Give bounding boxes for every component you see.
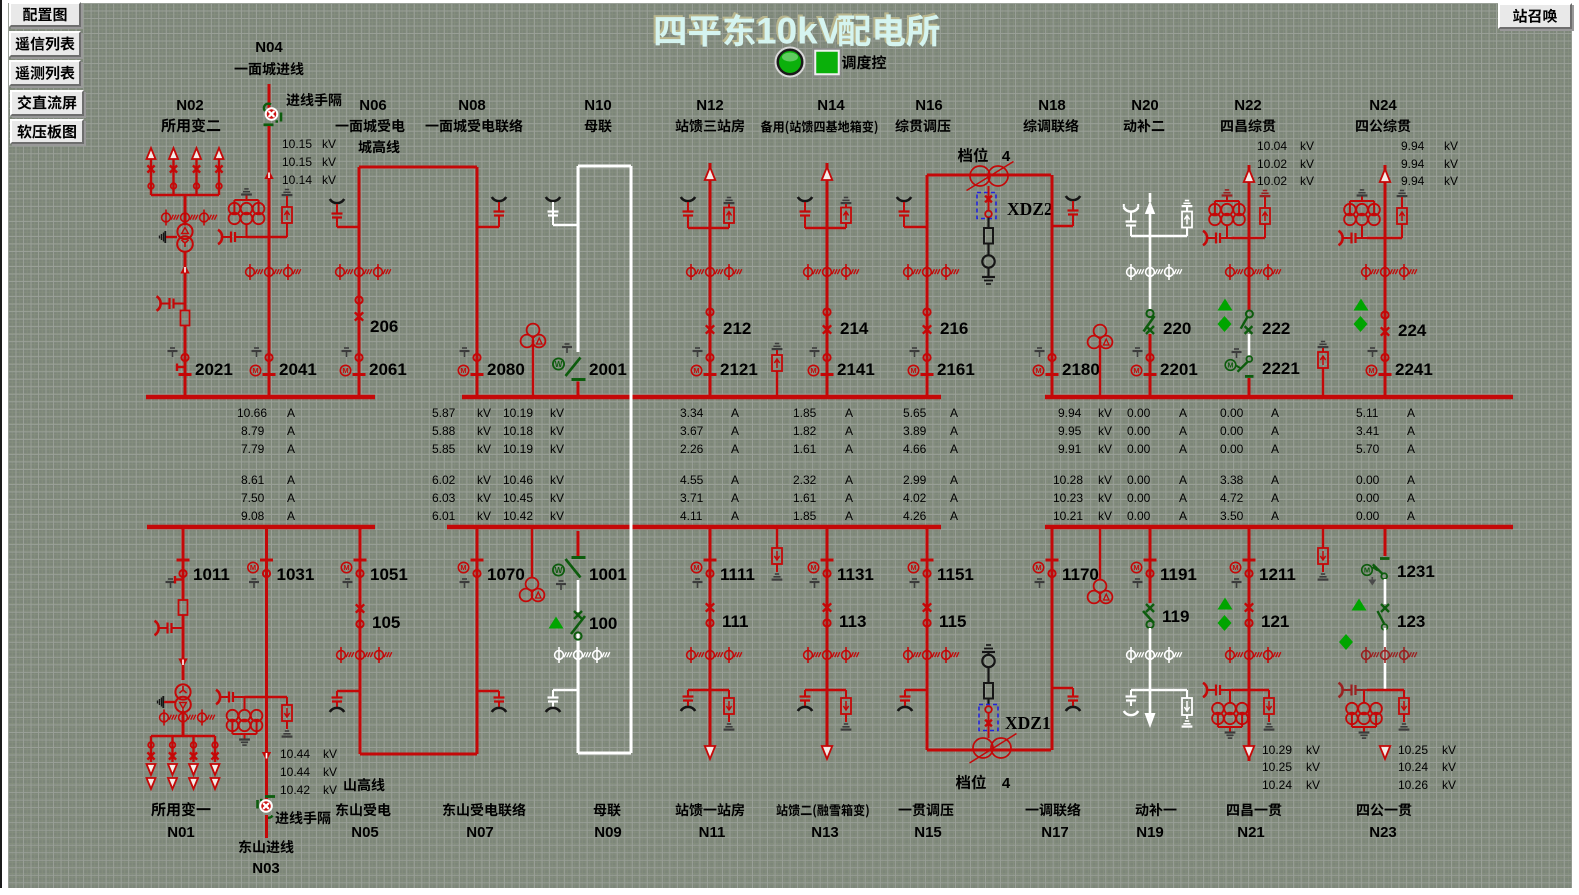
N19 arrester box <box>1182 690 1193 727</box>
svg-text:7.50: 7.50 <box>241 491 265 505</box>
arrester stub (bus II-III right) <box>1318 342 1329 398</box>
button 交直流屏 <box>10 90 84 116</box>
svg-text:N14: N14 <box>817 97 845 114</box>
label 四公一贯 <box>1357 803 1411 816</box>
N18 cable termination <box>1052 196 1080 226</box>
svg-text:9.91: 9.91 <box>1058 442 1082 456</box>
svg-text:10.14: 10.14 <box>282 173 312 187</box>
svg-text:kV: kV <box>1442 743 1456 757</box>
N20 CT row <box>1127 264 1182 280</box>
label N13 <box>811 824 839 841</box>
svg-text:10kV: 10kV <box>756 11 843 52</box>
svg-text:2241: 2241 <box>1395 360 1433 379</box>
svg-text:kV: kV <box>1098 491 1112 505</box>
N15 stem <box>926 527 929 750</box>
svg-text:A: A <box>1179 424 1187 438</box>
svg-text:10.02: 10.02 <box>1257 157 1287 171</box>
svg-text:3.50: 3.50 <box>1220 509 1244 523</box>
svg-text:2.99: 2.99 <box>903 473 927 487</box>
label 动补二 <box>1124 119 1165 132</box>
N24 status triangle <box>1354 299 1369 311</box>
N21 CT row <box>1226 647 1281 663</box>
svg-text:9.94: 9.94 <box>1401 174 1425 188</box>
svg-text:0.00: 0.00 <box>1127 509 1151 523</box>
svg-text:A: A <box>845 406 853 420</box>
svg-text:N11: N11 <box>699 824 726 841</box>
N16 cable termination <box>897 197 927 227</box>
svg-text:5.88: 5.88 <box>432 424 456 438</box>
svg-text:10.26: 10.26 <box>1398 778 1428 792</box>
label 一面城受电 <box>336 119 405 132</box>
svg-text:kV: kV <box>477 473 491 487</box>
N13 cable termination <box>798 690 827 711</box>
svg-text:9.08: 9.08 <box>241 509 265 523</box>
svg-text:10.44: 10.44 <box>280 747 310 761</box>
arrester stub (bottom bus II-III) <box>1318 529 1329 580</box>
XDZ2 tap changer <box>977 186 1053 284</box>
bus tie loop top <box>578 165 631 168</box>
label 四昌综贯 <box>1221 119 1275 132</box>
svg-text:216: 216 <box>940 319 968 338</box>
svg-text:4: 4 <box>1002 148 1011 165</box>
svg-text:kV: kV <box>1098 473 1112 487</box>
N02 prong 1 <box>147 148 156 195</box>
breaker 2221 (open) <box>1225 349 1300 397</box>
svg-text:9.94: 9.94 <box>1401 139 1425 153</box>
svg-text:2141: 2141 <box>837 360 875 379</box>
label N10 <box>584 97 612 114</box>
label 一面城进线 <box>235 62 304 75</box>
bus tie loop right <box>630 166 633 753</box>
N01 stem mid <box>182 615 185 680</box>
N01 prong 2 <box>168 736 177 789</box>
svg-text:0.00: 0.00 <box>1356 509 1380 523</box>
label 调度控 <box>842 55 886 69</box>
N22 white link <box>1248 334 1251 356</box>
label 四昌一贯 <box>1227 804 1281 817</box>
svg-text:A: A <box>1179 442 1187 456</box>
svg-text:10.24: 10.24 <box>1262 778 1292 792</box>
svg-text:kV: kV <box>322 173 336 187</box>
breaker 2241 <box>1366 348 1433 379</box>
svg-text:N17: N17 <box>1041 824 1069 841</box>
svg-text:1170: 1170 <box>1062 565 1099 584</box>
svg-text:0.00: 0.00 <box>1127 442 1151 456</box>
svg-text:A: A <box>950 442 958 456</box>
svg-text:M: M <box>343 563 349 572</box>
N22 status diamond <box>1218 316 1232 332</box>
svg-text:N05: N05 <box>351 824 379 841</box>
svg-text:N24: N24 <box>1369 97 1397 114</box>
svg-text:N21: N21 <box>1237 824 1265 841</box>
svg-text:1.85: 1.85 <box>793 406 817 420</box>
svg-text:N10: N10 <box>584 97 612 114</box>
svg-text:A: A <box>1407 442 1415 456</box>
svg-text:1051: 1051 <box>370 565 408 584</box>
svg-text:10.18: 10.18 <box>503 424 533 438</box>
svg-text:5.65: 5.65 <box>903 406 927 420</box>
svg-text:kV: kV <box>1300 174 1314 188</box>
N23 white link upper <box>1384 579 1387 604</box>
label 东山受电 <box>336 803 391 816</box>
station title 四平东10kV配电所 <box>654 9 940 52</box>
svg-text:kV: kV <box>477 491 491 505</box>
svg-text:A: A <box>1271 509 1279 523</box>
svg-text:2161: 2161 <box>937 360 975 379</box>
svg-text:M: M <box>1232 563 1238 572</box>
label N08 <box>458 97 486 114</box>
N15 cable termination <box>898 690 927 711</box>
grounding transformer (N21) <box>1212 690 1248 738</box>
N04 voltage rows <box>282 137 336 187</box>
N13 flow arrow <box>822 746 833 759</box>
N15 CT row <box>904 647 959 663</box>
grounding transformer (N03) <box>227 697 263 745</box>
bus tie termination lower <box>546 690 578 712</box>
svg-text:kV: kV <box>550 406 564 420</box>
N21 flow arrow <box>1244 746 1255 759</box>
svg-text:N19: N19 <box>1136 824 1164 841</box>
svg-text:3.67: 3.67 <box>680 424 704 438</box>
svg-text:N03: N03 <box>252 860 280 877</box>
svg-text:10.15: 10.15 <box>282 137 312 151</box>
svg-text:A: A <box>1271 424 1279 438</box>
svg-text:9.94: 9.94 <box>1058 406 1082 420</box>
svg-text:M: M <box>460 563 466 572</box>
breaker 1170 <box>1033 560 1099 588</box>
fuse F2 (N01) <box>179 600 188 615</box>
svg-text:kV: kV <box>1300 157 1314 171</box>
regulating transformer (bottom) <box>970 734 1017 764</box>
bus tie white link 100-1001 <box>577 580 580 612</box>
N13 stem <box>826 527 829 757</box>
regulator link top <box>927 174 1051 177</box>
svg-text:M: M <box>460 366 466 375</box>
N23 CT row <box>1362 647 1417 663</box>
svg-text:10.42: 10.42 <box>503 509 533 523</box>
svg-text:1.61: 1.61 <box>793 491 817 505</box>
svg-text:3.38: 3.38 <box>1220 473 1244 487</box>
svg-text:N12: N12 <box>696 97 724 114</box>
N24 status diamond <box>1354 316 1368 332</box>
svg-text:2180: 2180 <box>1062 360 1100 379</box>
N02 flow arrow <box>180 265 189 274</box>
svg-text:N22: N22 <box>1234 97 1262 114</box>
N02 prong 3 <box>192 148 201 195</box>
svg-text:1.85: 1.85 <box>793 509 817 523</box>
N01 transformer neutral earth <box>158 696 176 708</box>
svg-text:A: A <box>950 509 958 523</box>
bus tie loop bottom <box>578 752 631 755</box>
svg-text:A: A <box>950 424 958 438</box>
N01 prong 4 <box>211 736 220 789</box>
svg-text:220: 220 <box>1163 319 1191 338</box>
svg-text:kV: kV <box>1444 157 1458 171</box>
svg-text:W: W <box>555 360 563 369</box>
svg-text:kV: kV <box>477 442 491 456</box>
label N21 <box>1237 824 1265 841</box>
label 档位 4 (top) <box>958 148 1011 165</box>
measurements N16 currents <box>903 406 958 523</box>
svg-text:A: A <box>1407 424 1415 438</box>
grounding transformer (N22) <box>1209 190 1245 238</box>
N03 line main <box>265 527 268 799</box>
svg-text:A: A <box>1271 442 1279 456</box>
svg-text:kV: kV <box>1098 509 1112 523</box>
label 一贯调压 <box>899 803 954 816</box>
measurements N24 currents <box>1356 406 1415 523</box>
svg-text:XDZ1: XDZ1 <box>1005 713 1051 733</box>
svg-text:kV: kV <box>477 406 491 420</box>
N03 flow arrow <box>262 752 271 761</box>
svg-text:M: M <box>693 563 699 572</box>
svg-text:kV: kV <box>1098 424 1112 438</box>
label 动补一 <box>1136 803 1177 816</box>
svg-text:A: A <box>731 424 739 438</box>
disconnect 222 (open) <box>1241 311 1291 339</box>
svg-text:121: 121 <box>1261 612 1289 631</box>
svg-text:M: M <box>250 563 256 572</box>
svg-text:0.00: 0.00 <box>1220 442 1244 456</box>
disconnect 111 <box>706 603 749 631</box>
N11 stem <box>709 527 712 757</box>
svg-text:8.79: 8.79 <box>241 424 265 438</box>
svg-text:A: A <box>287 473 295 487</box>
svg-text:1.61: 1.61 <box>793 442 817 456</box>
N01 CT row <box>160 710 215 726</box>
N14 arrester box <box>827 198 851 229</box>
svg-text:A: A <box>845 442 853 456</box>
N03 voltage rows <box>280 747 337 797</box>
label 山高线 <box>344 778 384 791</box>
N22 CT row <box>1226 264 1281 280</box>
svg-text:7.79: 7.79 <box>241 442 265 456</box>
top bus section II <box>462 395 941 400</box>
svg-text:0.00: 0.00 <box>1220 424 1244 438</box>
svg-text:10.45: 10.45 <box>503 491 533 505</box>
label 母联 <box>585 119 612 132</box>
svg-text:212: 212 <box>723 319 751 338</box>
N07 cable termination <box>477 691 506 712</box>
breaker 1031 <box>248 560 315 588</box>
measurements N12 currents <box>680 406 739 523</box>
label N14 <box>817 97 845 114</box>
svg-text:kV: kV <box>550 442 564 456</box>
N02 stem mid <box>184 252 187 310</box>
N08 cable termination <box>477 197 506 227</box>
N07 stem <box>476 527 479 754</box>
label N23 <box>1369 824 1397 841</box>
svg-text:kV: kV <box>1098 442 1112 456</box>
svg-text:kV: kV <box>322 137 336 151</box>
disconnect 206 <box>355 296 399 336</box>
button 遥测列表 <box>9 60 81 86</box>
N22 voltage rows <box>1257 139 1314 188</box>
N17 cable termination <box>1052 688 1080 711</box>
mountain line loop bottom <box>360 753 477 756</box>
arrester box (N03) <box>267 697 293 737</box>
svg-text:6.03: 6.03 <box>432 491 456 505</box>
svg-text:1151: 1151 <box>937 565 974 584</box>
N23 status diamond <box>1339 634 1353 650</box>
arrester stub (bottom bus I-II) <box>772 529 783 580</box>
N05 CT row <box>337 647 392 663</box>
svg-text:3.41: 3.41 <box>1356 424 1380 438</box>
svg-text:A: A <box>1271 406 1279 420</box>
label 站馈三站房 <box>676 119 745 132</box>
LED indicator <box>776 48 805 77</box>
N05 cable termination <box>330 691 360 712</box>
N21 status diamond <box>1218 615 1232 631</box>
disconnect 119 (open) <box>1143 604 1189 628</box>
N19 branch <box>1131 689 1187 691</box>
svg-text:M: M <box>910 366 916 375</box>
bottom bus section II <box>447 525 941 530</box>
svg-text:kV: kV <box>1306 760 1320 774</box>
N05 stem <box>359 527 362 754</box>
disconnect 212 <box>706 308 752 338</box>
svg-text:M: M <box>1133 366 1139 375</box>
svg-text:A: A <box>845 473 853 487</box>
N23 voltage rows <box>1398 743 1456 792</box>
dispatch control box <box>814 49 841 76</box>
svg-text:A: A <box>287 491 295 505</box>
svg-text:M: M <box>1035 563 1041 572</box>
label N02 <box>176 97 204 114</box>
N22 stem <box>1244 165 1255 311</box>
svg-text:0.00: 0.00 <box>1356 491 1380 505</box>
svg-text:A: A <box>1407 473 1415 487</box>
label 四公综贯 <box>1356 119 1410 132</box>
button 软压板图 <box>10 119 84 145</box>
label N06 <box>359 97 387 114</box>
svg-text:N16: N16 <box>915 97 943 114</box>
svg-text:2041: 2041 <box>279 360 317 379</box>
disconnect 123 (open) <box>1378 604 1426 631</box>
svg-text:A: A <box>1179 473 1187 487</box>
breaker 1070 <box>458 560 525 588</box>
svg-text:8.61: 8.61 <box>241 473 265 487</box>
svg-text:M: M <box>810 366 816 375</box>
svg-text:N04: N04 <box>255 39 283 56</box>
breaker 2061 <box>340 348 407 379</box>
disconnect 216 <box>923 308 969 338</box>
svg-text:M: M <box>252 366 258 375</box>
svg-text:4.26: 4.26 <box>903 509 927 523</box>
svg-text:A: A <box>1179 491 1187 505</box>
breaker 1191 <box>1131 560 1197 588</box>
disconnect 220 (open) <box>1144 310 1192 338</box>
svg-text:2001: 2001 <box>589 360 627 379</box>
svg-text:A: A <box>1271 491 1279 505</box>
breaker 2121 <box>691 348 758 379</box>
svg-text:10.25: 10.25 <box>1398 743 1428 757</box>
N13 CT row <box>804 647 859 663</box>
label N09 <box>594 824 622 841</box>
N23 surge arrester <box>1339 683 1386 697</box>
N03 surge arrester <box>216 690 267 704</box>
transformer T1 (N01) <box>175 684 191 712</box>
svg-text:M: M <box>1133 563 1139 572</box>
isolator indicator (N04 进线手隔) <box>264 104 282 125</box>
svg-text:M: M <box>1035 366 1041 375</box>
city line loop top <box>359 166 477 169</box>
N12 cable termination <box>681 197 710 228</box>
XDZ1 tap changer <box>979 645 1051 738</box>
svg-text:10.28: 10.28 <box>1053 473 1083 487</box>
svg-text:N06: N06 <box>359 97 387 114</box>
svg-text:10.24: 10.24 <box>1398 760 1428 774</box>
N01 stem to fan <box>182 712 185 736</box>
label N24 <box>1369 97 1397 114</box>
svg-text:kV: kV <box>1306 743 1320 757</box>
svg-text:N18: N18 <box>1038 97 1066 114</box>
svg-text:N20: N20 <box>1131 97 1159 114</box>
arrester box (N04) <box>269 190 292 238</box>
N23 white link lower <box>1384 628 1387 690</box>
svg-text:10.46: 10.46 <box>503 473 533 487</box>
N20 arrester box <box>1182 201 1193 237</box>
svg-text:5.11: 5.11 <box>1356 406 1379 420</box>
bus tie termination upper <box>546 197 578 225</box>
svg-text:A: A <box>1179 509 1187 523</box>
svg-text:10.42: 10.42 <box>280 783 310 797</box>
measurements N02 currents <box>237 406 295 523</box>
svg-text:N07: N07 <box>466 824 494 841</box>
svg-text:113: 113 <box>839 612 866 631</box>
regulator link bottom <box>927 749 1051 752</box>
N02 stem lower <box>184 326 187 398</box>
svg-text:2.26: 2.26 <box>680 442 704 456</box>
N11 flow arrow <box>705 746 716 759</box>
breaker 1211 <box>1230 560 1296 588</box>
disconnect 115 <box>923 603 967 631</box>
bottom bus section I <box>147 525 375 530</box>
breaker 2021 <box>168 348 233 379</box>
label 进线手隔 <box>286 93 341 106</box>
N01 fan bar <box>151 735 215 737</box>
svg-text:10.23: 10.23 <box>1053 491 1083 505</box>
N21 stem <box>1248 527 1251 761</box>
svg-text:A: A <box>1407 509 1415 523</box>
N08 stem <box>476 167 479 397</box>
breaker 1051 <box>341 560 408 588</box>
N01 surge arrester <box>155 621 184 635</box>
N03 line tail <box>265 815 268 838</box>
N21 status triangle <box>1218 598 1233 610</box>
label N12 <box>696 97 724 114</box>
N19 CT row <box>1127 647 1182 663</box>
svg-text:XDZ2: XDZ2 <box>1007 199 1053 219</box>
svg-text:kV: kV <box>1306 778 1320 792</box>
svg-text:A: A <box>287 406 295 420</box>
svg-text:1111: 1111 <box>720 565 755 584</box>
svg-text:0.00: 0.00 <box>1127 491 1151 505</box>
PT cluster (N08) <box>521 324 546 397</box>
top bus section III <box>1045 395 1513 400</box>
svg-text:10.04: 10.04 <box>1257 139 1287 153</box>
svg-text:N01: N01 <box>167 824 195 841</box>
svg-text:123: 123 <box>1397 612 1425 631</box>
svg-text:A: A <box>1407 491 1415 505</box>
svg-text:A: A <box>731 406 739 420</box>
svg-text:2201: 2201 <box>1160 360 1198 379</box>
isolator indicator (N03 进线手隔) <box>258 797 276 818</box>
svg-text:111: 111 <box>722 612 749 631</box>
N19 flow arrow <box>1145 713 1156 728</box>
N20 stem white <box>1149 213 1152 310</box>
label N20 <box>1131 97 1159 114</box>
